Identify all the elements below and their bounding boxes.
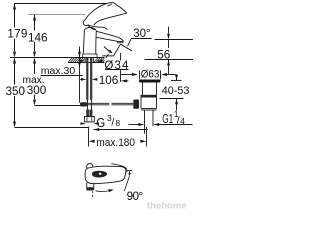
svg-text:300: 300 [27, 84, 47, 97]
swivel arc arrowhead [108, 50, 112, 54]
106 arrows at shank tube [81, 78, 97, 81]
plan view: ghost line top right [111, 164, 127, 173]
dimension vertical 146/max300 at x=34.5 [34, 15, 36, 100]
pull rod vertical [79, 47, 81, 103]
56 top arrow [167, 34, 170, 40]
swivel arc [104, 47, 111, 53]
drain flange [139, 80, 161, 83]
tip inner curl [108, 4, 112, 6]
shank tube bars [86, 58, 88, 100]
aerator tip [118, 38, 124, 43]
350 bottom arrow [13, 122, 16, 128]
max.180 right tick [146, 127, 148, 147]
body right edge [95, 32, 98, 55]
svg-text:146: 146 [28, 32, 48, 45]
plan view: handle paddle outline [85, 166, 126, 183]
svg-text:4: 4 [180, 116, 185, 126]
max30 upper arrow [78, 52, 81, 58]
max.180 row arrows [89, 140, 95, 143]
faucet lever handle [83, 3, 127, 58]
drain neck [141, 83, 157, 111]
spout bottom edge [96, 37, 117, 41]
body left edge [83, 30, 84, 54]
aerator ring [118, 41, 123, 43]
deck bottom line [68, 62, 104, 64]
oblique tick [106, 54, 109, 58]
svg-text:8: 8 [115, 118, 120, 128]
top reference line (lever top level) [15, 3, 108, 5]
plan view: dark lens on handle [92, 171, 107, 178]
svg-text:max.180: max.180 [96, 137, 135, 149]
max.180 upper line [94, 129, 148, 131]
G3/8 dim arrows [81, 122, 99, 125]
supply pipe [87, 100, 89, 110]
Ø34 collar arrows [80, 60, 103, 63]
max.30 underline [41, 75, 83, 77]
146 top arrow [33, 15, 36, 21]
top edge to tip [85, 3, 116, 20]
svg-text:thehome: thehome [147, 201, 187, 212]
label leader [128, 39, 132, 46]
spout outlet level line [155, 39, 194, 41]
near underside [88, 25, 108, 30]
Ø34 dim line above deck [102, 55, 114, 57]
Ø34 underline [105, 69, 129, 71]
leg B [121, 44, 132, 51]
spout top edge [96, 31, 119, 37]
plan view: spout tube below [87, 183, 94, 189]
svg-text:Ø63: Ø63 [141, 68, 160, 80]
max300 end line [35, 105, 88, 107]
deck hatch left of faucet [68, 58, 85, 63]
svg-text:90°: 90° [127, 190, 144, 203]
plan view: spout dark cap [86, 187, 94, 190]
G3/8 nut [85, 117, 95, 122]
plan view: leader diagonal [124, 176, 129, 191]
svg-text:Ø34: Ø34 [104, 60, 129, 72]
deck arrows x=34.5 [33, 52, 36, 58]
leg A [114, 44, 121, 56]
knob (pivot end) [83, 20, 87, 26]
plan view: dashed swivel line [92, 191, 94, 199]
far edge [116, 5, 127, 13]
aerator axis extension [120, 53, 122, 61]
basin rim line [145, 59, 194, 61]
svg-text:G: G [96, 115, 105, 130]
56 dimension [145, 40, 194, 60]
G1 1/4 dim [129, 124, 140, 126]
svg-text:G1: G1 [162, 111, 173, 126]
far underside sweep [94, 13, 127, 25]
svg-text:179: 179 [7, 27, 27, 40]
svg-text:106: 106 [99, 74, 119, 87]
plan view: swivel arc [96, 190, 111, 193]
30 degree annotation [104, 39, 152, 56]
inner neck line [88, 25, 95, 30]
secondary reference line (lever pivot level) [28, 14, 86, 16]
cartridge dome [84, 27, 96, 31]
plan view: pull-rod knob circle [87, 164, 93, 170]
deck top line [10, 57, 104, 59]
dimension vertical 179/350 at x=14.5 [14, 4, 16, 122]
drain body top band [141, 95, 157, 98]
svg-text:30°: 30° [133, 28, 150, 40]
179 top arrow [13, 4, 16, 10]
Ø63 dim line [121, 74, 133, 76]
svg-text:40-53: 40-53 [162, 85, 190, 97]
tailpiece [144, 110, 146, 134]
G3/8 fitting bars [86, 110, 92, 117]
pop-up rod [80, 103, 133, 105]
rod left joint [80, 102, 87, 106]
rod ball nut [133, 100, 139, 109]
supply level line (350 end) [15, 127, 89, 129]
deck hatch right of faucet [94, 58, 105, 63]
svg-text:350: 350 [6, 85, 26, 98]
Ø63 extension verticals [139, 71, 141, 80]
max300 bottom arrow [33, 100, 36, 106]
56 bottom arrow [167, 60, 170, 66]
plan view: white hole in lens [99, 173, 102, 175]
40-53 dimension [160, 75, 184, 111]
deck arrows x=14.5 [13, 52, 16, 58]
arrowheads vertical dims [13, 4, 36, 128]
plan view: lever travel tick [127, 170, 132, 172]
drain body [140, 95, 142, 109]
106 arrow pointing left at axis [121, 79, 127, 82]
max.180 left tick [88, 127, 90, 147]
max30 lower arrow [78, 63, 81, 67]
base plinth [83, 54, 97, 57]
svg-text:56: 56 [157, 49, 170, 62]
shelf line [131, 38, 152, 40]
svg-text:/: / [111, 117, 114, 129]
